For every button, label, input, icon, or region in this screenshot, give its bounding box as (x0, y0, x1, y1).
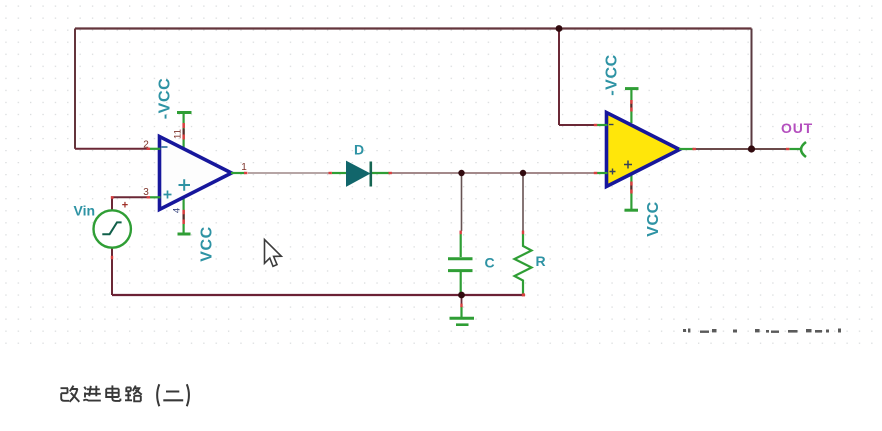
svg-text:Vin: Vin (74, 203, 96, 219)
capacitor C top plate (448, 257, 473, 260)
svg-text:C: C (484, 255, 494, 271)
U2 top lead dark segment (630, 104, 632, 108)
U2 output stub (679, 148, 694, 150)
wire U2 output to node (694, 148, 787, 150)
OUT port arc (801, 142, 806, 157)
mouse cursor (265, 240, 282, 267)
ground bar 2 (456, 323, 469, 326)
VCC bar U2 (625, 209, 639, 212)
VCC bar U1 (178, 233, 191, 236)
diode D cathode bar (369, 162, 372, 187)
source Vin circle (94, 210, 131, 247)
U2 bottom lead dark segment (630, 186, 632, 190)
svg-text:11: 11 (173, 129, 184, 139)
svg-text:4: 4 (172, 208, 183, 213)
wire left vertical feedback (74, 29, 76, 149)
pin 2 stub (150, 148, 161, 150)
ground lead (460, 306, 462, 317)
svg-text:-VCC: -VCC (157, 78, 174, 120)
resistor R top lead (515, 234, 532, 294)
op-amp U1 plus mark (164, 191, 172, 199)
source Vin step symbol (102, 222, 121, 234)
pin end tick marks (111, 100, 790, 307)
wire bottom return (112, 294, 523, 296)
pin 3 stub (150, 196, 161, 198)
op-amp U1 minus mark (162, 146, 168, 148)
junction top (556, 25, 563, 32)
-VCC bar U1 (177, 111, 192, 114)
ground bar 1 (450, 317, 475, 320)
wire Vin bottom (111, 248, 113, 296)
wire branch vertical to U2 inverting input (558, 29, 560, 126)
op-amp U2 minus mark (609, 124, 614, 126)
svg-text:D: D (354, 142, 364, 158)
pin 11 lead dark segment (183, 129, 185, 135)
pin 4 lead U1 (183, 198, 185, 234)
junction res top (520, 170, 526, 176)
U2 bottom power lead (630, 175, 632, 210)
svg-text:R: R (535, 253, 545, 269)
capacitor C top lead (460, 234, 462, 257)
U2 top power lead (630, 90, 632, 124)
pin 11 lead U1 (183, 114, 185, 149)
svg-text:1: 1 (241, 162, 247, 173)
wire top feedback (75, 27, 752, 29)
diode D body (347, 162, 370, 187)
svg-text:-VCC: -VCC (604, 54, 621, 96)
svg-text:VCC: VCC (645, 201, 662, 237)
wire into pin 2 (75, 148, 148, 150)
wire ground stub (461, 295, 463, 305)
wire U1 output to diode (248, 172, 330, 174)
wire node down to resistor (522, 173, 524, 231)
op-amp U2 plus mark (610, 169, 616, 175)
capacitor C bottom plate (448, 269, 473, 272)
junction cap top (458, 170, 464, 176)
wire diode to U2 plus input (391, 172, 595, 174)
pin 4 lead dark segment (183, 214, 185, 220)
capacitor C bottom lead (460, 272, 462, 293)
-VCC bar U2 (625, 87, 639, 90)
clipped text fragment bottom right (683, 329, 841, 333)
wire Vin top (112, 197, 148, 211)
op-amp U1 inner plus mark (179, 179, 191, 191)
junction cap bottom (458, 292, 465, 299)
U2 noninverting stub (597, 172, 608, 174)
svg-text:OUT: OUT (781, 120, 813, 136)
caption 改进电路（二） (61, 384, 189, 406)
svg-text:+: + (122, 200, 128, 212)
op-amp U1 (160, 137, 232, 210)
pin 1 output stub U1 (231, 172, 246, 174)
U2 inverting stub (597, 124, 608, 126)
junction output node (748, 145, 755, 152)
wire right vertical from top to output node (751, 29, 753, 150)
wire into U2 inverting input (559, 124, 595, 126)
svg-text:VCC: VCC (199, 226, 216, 262)
diode D anode lead (332, 172, 347, 174)
diode D cathode lead (372, 172, 389, 174)
OUT lead (790, 148, 802, 150)
wire node down to capacitor (461, 173, 463, 231)
op-amp U2 inner plus mark (624, 161, 632, 169)
op-amp U2 (607, 113, 680, 187)
